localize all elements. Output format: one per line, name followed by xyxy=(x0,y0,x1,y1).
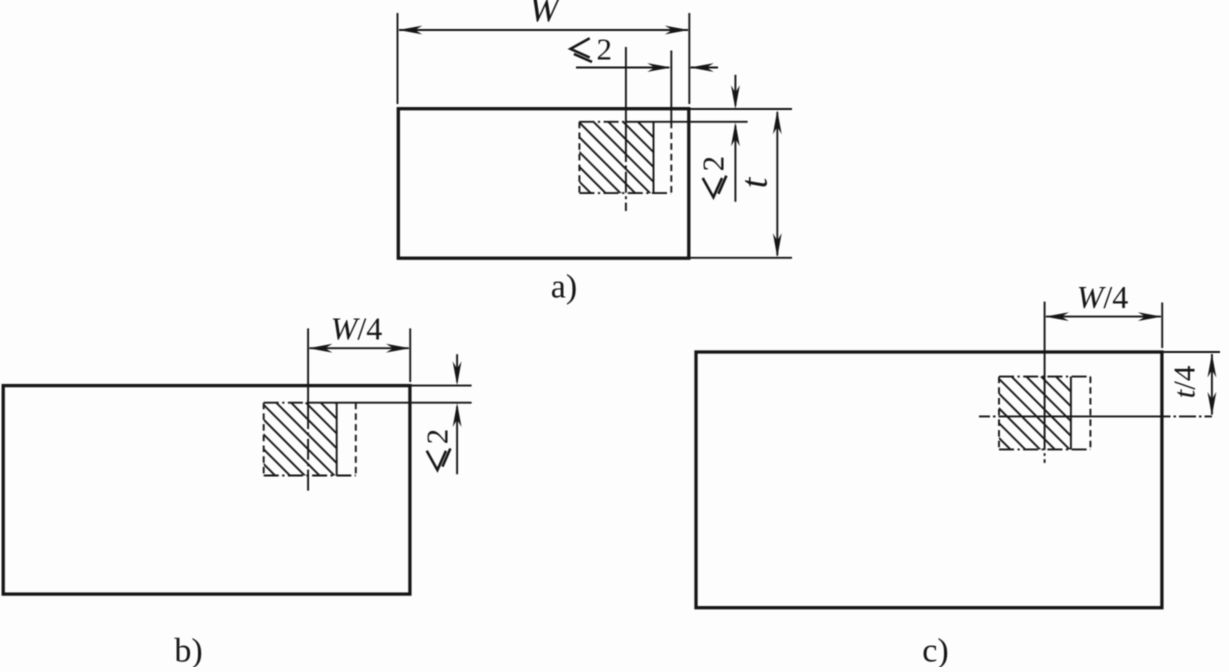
svg-text:a): a) xyxy=(551,269,577,306)
svg-text:2: 2 xyxy=(597,31,613,66)
svg-text:2: 2 xyxy=(696,156,731,172)
svg-text:b): b) xyxy=(174,633,202,668)
svg-text:W/4: W/4 xyxy=(331,311,383,347)
svg-text:2: 2 xyxy=(420,429,455,445)
svg-text:c): c) xyxy=(922,633,948,668)
svg-text:W/4: W/4 xyxy=(1077,279,1129,315)
svg-text:t: t xyxy=(734,176,776,188)
svg-text:W: W xyxy=(529,0,562,29)
svg-text:t/4: t/4 xyxy=(1167,365,1202,398)
